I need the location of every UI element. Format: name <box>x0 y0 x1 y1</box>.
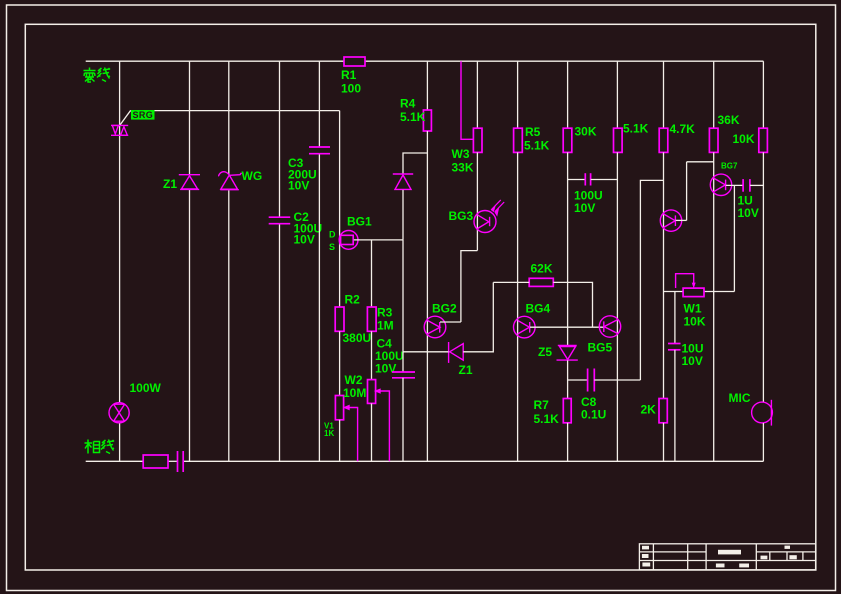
surge arrester WG symbol <box>219 172 242 190</box>
svg-text:BG4: BG4 <box>526 302 551 316</box>
wire BG7 tap to 1U cap <box>726 184 743 186</box>
capacitor C2 plates <box>269 217 291 224</box>
wire R4 corner to diode column <box>403 153 427 174</box>
wire 4.7K column from neutral rail <box>663 61 665 128</box>
capacitor 100U/10V right lead <box>591 179 618 181</box>
svg-text:WG: WG <box>242 169 263 183</box>
resistor R2 <box>335 307 344 331</box>
wire MIC to phase rail <box>762 423 764 461</box>
svg-text:Z1: Z1 <box>459 363 473 377</box>
wire 4.7K column down through BG6 to 2K <box>663 152 665 398</box>
wire diode column BG1-tap to Z1 wire <box>402 240 404 352</box>
svg-text:5.1K: 5.1K <box>534 412 560 426</box>
capacitor 10U plates <box>668 344 681 350</box>
resistor R4 <box>423 110 431 131</box>
wire column C3 lower <box>318 154 320 462</box>
svg-text:10K: 10K <box>733 132 755 146</box>
wire W1 left lead <box>664 291 684 293</box>
triac SKG symbol <box>111 125 128 135</box>
svg-text:0.1U: 0.1U <box>581 408 606 422</box>
wire 30K column from neutral rail <box>567 61 569 128</box>
wire neutral rail (zero line) left segment <box>86 60 344 62</box>
wire column C2 upper <box>279 61 281 217</box>
wire phase rail middle segment <box>168 460 177 462</box>
svg-text:380U: 380U <box>343 331 372 345</box>
lamp 100W symbol <box>109 403 129 423</box>
wire R5 column from neutral rail <box>517 61 519 128</box>
wire neutral rail right segment <box>365 60 763 62</box>
wire 62K left lead <box>493 281 529 283</box>
wire BG6 base column down <box>686 162 688 221</box>
zener diode Z1 (left column) <box>179 175 200 190</box>
svg-text:10V: 10V <box>294 233 315 247</box>
wire column triac/lamp upper <box>119 61 121 403</box>
resistor 10K <box>759 128 768 152</box>
svg-text:10M: 10M <box>343 386 366 400</box>
wire 1U cap to 10K column <box>750 184 764 186</box>
capacitor C4 plates <box>392 372 415 378</box>
wire diode to BG1 tap junction <box>402 190 404 240</box>
wire W3 down through BG3 to corner <box>476 152 478 250</box>
wire 36K down through BG7 to phase rail <box>713 152 715 461</box>
wire W3 column from neutral rail <box>476 61 478 128</box>
fet BG1 symbol (circle with square) <box>339 231 358 250</box>
resistor (on phase rail, unlabeled) <box>143 455 168 468</box>
wire 5.1K column from neutral rail <box>616 61 618 128</box>
node label 零线 (neutral line) <box>84 68 111 83</box>
wire C8 right lead to corner <box>594 379 640 381</box>
resistor 62K <box>529 278 553 286</box>
svg-text:D: D <box>329 230 336 240</box>
wire R5 down through BG4 to phase rail <box>517 152 519 461</box>
wire branch 36K node to BG6 base column <box>687 161 714 163</box>
diode D (below R4) <box>393 174 413 189</box>
wire phase rail right segment <box>184 460 764 462</box>
svg-text:R1: R1 <box>341 68 357 82</box>
wire R4 column from neutral rail <box>426 61 428 110</box>
wiper of potentiometer V1 (arrow and wire to rail) <box>345 406 358 462</box>
wire Z1 horizontal left segment <box>403 351 449 353</box>
wire C4 to phase rail <box>402 378 404 462</box>
svg-text:10V: 10V <box>375 362 396 376</box>
svg-text:R5: R5 <box>525 125 541 139</box>
wire 10U column from W1 wire down <box>674 292 676 344</box>
label SRG (highlighted) <box>131 110 155 120</box>
wire SRG gate horizontal to BG1 <box>131 110 340 112</box>
svg-text:10K: 10K <box>684 315 706 329</box>
wire corner from C8 wire up to 4.7K branch <box>640 180 663 380</box>
svg-text:R7: R7 <box>534 398 550 412</box>
wire 5.1K column down through BG5 to phase rail <box>616 152 618 461</box>
wire Z1 horizontal right segment and corner up to 62K <box>463 282 493 351</box>
svg-text:W1: W1 <box>684 302 702 316</box>
capacitor (on phase rail, unlabeled) plates <box>177 451 179 472</box>
transistor BG4 <box>514 316 536 338</box>
svg-text:4.7K: 4.7K <box>670 122 696 136</box>
svg-text:100W: 100W <box>130 381 162 395</box>
wire W3 wiper from neutral rail (magenta) <box>461 61 473 139</box>
svg-text:10V: 10V <box>738 206 759 220</box>
svg-text:R3: R3 <box>377 306 393 320</box>
svg-text:30K: 30K <box>575 125 597 139</box>
wire column C2 lower <box>279 224 281 462</box>
wire potentiometer V1 to phase rail <box>339 420 341 462</box>
svg-text:Z5: Z5 <box>538 345 552 359</box>
zener diode Z5 (pointing down) <box>557 345 578 360</box>
svg-text:S: S <box>329 242 335 252</box>
potentiometer W3 body <box>473 128 482 152</box>
microphone MIC symbol <box>752 400 773 426</box>
svg-text:10V: 10V <box>288 179 309 193</box>
svg-text:SRG: SRG <box>133 110 154 120</box>
phototransistor BG3 <box>474 200 504 233</box>
svg-text:33K: 33K <box>452 161 474 175</box>
wire 2K to phase rail <box>663 423 665 462</box>
svg-text:10V: 10V <box>682 354 703 368</box>
title block table <box>639 544 815 570</box>
svg-text:R2: R2 <box>345 293 361 307</box>
capacitor 100U/10V plates <box>585 173 590 185</box>
wire column lamp to phase rail <box>119 423 121 462</box>
wire 62K right lead and corner down to base wire <box>553 282 592 327</box>
svg-text:5.1K: 5.1K <box>524 139 550 153</box>
wire BG6 base tap <box>676 219 687 221</box>
svg-text:MIC: MIC <box>729 391 751 405</box>
resistor 30K <box>563 128 572 152</box>
wire R2 to potentiometer V1 <box>339 331 341 395</box>
svg-text:10V: 10V <box>574 201 595 215</box>
zener diode Z1 (horizontal, near BG2) <box>449 342 464 363</box>
wire R4 down through BG2 to phase rail <box>426 131 428 461</box>
potentiometer W2 body <box>368 380 376 404</box>
svg-text:2K: 2K <box>641 403 657 417</box>
wire BG4 tap to BG5 base <box>530 326 604 328</box>
svg-text:1M: 1M <box>377 319 394 333</box>
svg-text:100: 100 <box>341 82 361 96</box>
transistor BG6 <box>660 210 681 231</box>
wire column zener Z1 upper <box>189 61 191 175</box>
wire 30K column down to Z5 <box>567 152 569 345</box>
capacitor C3 plates <box>309 147 330 154</box>
transistor BG2 <box>424 316 446 338</box>
wiper of potentiometer W1 (shorted to left terminal) <box>676 274 696 288</box>
capacitor C8 plates <box>588 369 595 392</box>
svg-text:R4: R4 <box>400 97 416 111</box>
wire 36K column from neutral rail <box>713 61 715 128</box>
svg-text:62K: 62K <box>531 262 553 276</box>
svg-text:BG7: BG7 <box>721 162 738 171</box>
wire column zener Z1 lower <box>189 190 191 461</box>
svg-text:BG5: BG5 <box>588 341 613 355</box>
svg-text:5.1K: 5.1K <box>400 110 426 124</box>
resistor R3 <box>367 307 376 331</box>
capacitor 1U/10V plates <box>743 179 750 192</box>
wire W1 right lead <box>704 291 734 293</box>
wire branch from 1U wire down to W1 right wire <box>733 185 735 291</box>
svg-text:5.1K: 5.1K <box>623 122 649 136</box>
resistor R7 <box>563 399 571 423</box>
transistor BG7 <box>710 174 731 195</box>
svg-text:36K: 36K <box>718 113 740 127</box>
wire BG3 emitter corner down to BG2 <box>461 251 477 322</box>
wire phase rail (bottom) left segment <box>86 460 144 462</box>
resistor 2K <box>659 399 667 423</box>
svg-text:Z1: Z1 <box>163 177 177 191</box>
resistor 5.1K (top row) <box>614 128 623 152</box>
wire diode column Z1-wire to C4 <box>402 352 404 372</box>
svg-text:W3: W3 <box>452 147 470 161</box>
potentiometer W1 body <box>683 288 704 297</box>
wire BG2 base tap <box>440 321 461 323</box>
wire 10U to phase rail <box>674 350 676 462</box>
wire column WG lower <box>228 190 230 461</box>
resistor R5 <box>514 128 523 152</box>
resistor 36K <box>709 128 718 152</box>
wire R3 to potentiometer W2 <box>371 331 373 379</box>
wire C8 left lead <box>568 379 588 381</box>
wiper of potentiometer W2 (arrow and wire to rail) <box>376 389 390 461</box>
wire column WG upper <box>228 61 230 174</box>
wire Z5 to R7 <box>567 360 569 398</box>
wire R3 column from BG1 tap down to R3 <box>371 240 373 307</box>
wire column C3 upper <box>318 61 320 147</box>
svg-text:BG1: BG1 <box>347 215 372 229</box>
resistor 4.7K <box>659 128 668 152</box>
svg-text:W2: W2 <box>345 373 363 387</box>
wire R7 to phase rail <box>567 423 569 462</box>
wire 10K column from neutral rail <box>762 61 764 128</box>
wire SRG gate diagonal <box>120 111 131 126</box>
wire BG1 tap to diode column <box>354 239 403 241</box>
transistor BG5 (mirrored) <box>599 316 620 337</box>
wire 10K column down to MIC <box>762 152 764 402</box>
potentiometer V1 body <box>335 396 343 420</box>
node label 相线 (phase line) <box>85 440 115 454</box>
svg-text:BG2: BG2 <box>432 302 457 316</box>
wire gate column down to BG1 and through to R2 <box>339 111 341 307</box>
capacitor 100U/10V (horizontal) left lead <box>568 179 585 181</box>
resistor R1 (on neutral rail) <box>344 57 365 66</box>
svg-text:1K: 1K <box>324 429 334 438</box>
wire potentiometer W2 to phase rail <box>371 403 373 461</box>
svg-text:BG3: BG3 <box>449 209 474 223</box>
